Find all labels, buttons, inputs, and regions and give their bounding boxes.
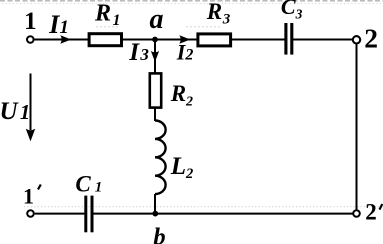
wire: R3 to C3 [231,39,285,41]
wire: coil to node b [154,194,156,214]
wire: terminal 1 to R1 [35,39,91,41]
current arrow I1 [60,35,71,43]
terminal 1 circle [27,36,34,43]
wire: right vertical 2 to 2' [356,44,358,210]
terminal 2' circle [353,210,360,217]
resistor R3 [198,34,231,46]
wire: R2 to coil L2 [154,108,156,122]
capacitor C1 [86,196,92,233]
wire: C1 to node b to terminal 2' [93,213,353,215]
svg-text:2: 2 [364,22,378,53]
svg-text:b: b [153,223,165,244]
svg-text:1: 1 [24,8,36,35]
svg-text:U1: U1 [0,98,30,125]
node a junction dot [152,37,158,43]
svg-text:2: 2 [365,200,377,225]
prime of terminal 2' [380,204,383,210]
current arrow I3 [151,51,159,62]
wire: node a down to R2 [154,40,156,75]
inductor L2 coil [155,121,166,195]
faint artifact segment under R1 label [96,26,119,28]
faint dotted artifact line above bottom wire [24,206,383,208]
terminal 2 circle [353,36,360,43]
voltage arrow U1 [30,74,32,131]
svg-text:a: a [150,4,164,35]
faint top dotted artifact line [2,3,383,5]
wire: C3 to terminal 2 [293,39,353,41]
prime of terminal 1' [38,185,41,190]
wire: R1 to node a to R3 [122,39,198,41]
svg-text:1: 1 [23,183,34,208]
capacitor C3 [286,23,292,55]
resistor R2 [150,73,161,107]
faint top dashed artifact line [0,0,383,2]
resistor R1 [89,34,121,46]
wire: terminal 1' to C1 [35,213,85,215]
node b junction dot [152,211,158,217]
terminal 1' circle [27,210,34,217]
faint artifact segment near R3 label [186,26,222,28]
current arrow I2 [179,35,190,43]
